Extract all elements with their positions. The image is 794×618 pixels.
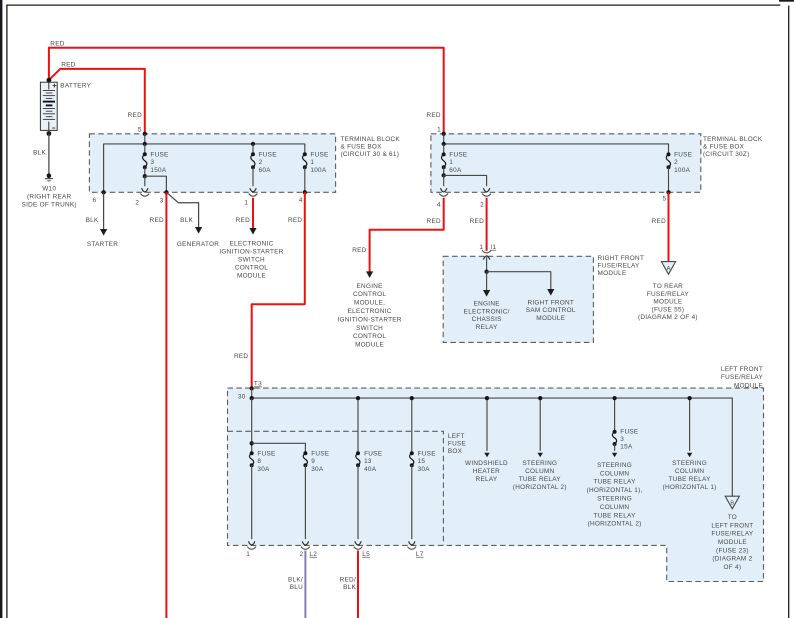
svg-text:OF 4): OF 4) <box>724 564 742 571</box>
svg-text:RED: RED <box>470 218 484 225</box>
svg-text:30: 30 <box>238 393 246 400</box>
module internal wire from entry <box>486 257 488 272</box>
fuse box 2 pin 1 entry dot <box>442 132 446 136</box>
svg-text:RED: RED <box>426 112 440 119</box>
svg-text:GENERATOR: GENERATOR <box>177 241 220 248</box>
svg-text:100A: 100A <box>310 167 327 174</box>
svg-text:COLUMN: COLUMN <box>675 468 704 475</box>
svg-text:5: 5 <box>138 127 142 134</box>
fuse 9 output wire with arrow to pin 2/L2 <box>304 465 306 539</box>
svg-text:FUSE: FUSE <box>449 152 467 159</box>
fuse F1 output junction <box>443 167 445 175</box>
svg-text:2: 2 <box>259 159 263 166</box>
fuse box 2 bus wire <box>444 144 669 155</box>
svg-text:BLU: BLU <box>290 584 303 591</box>
svg-text:4: 4 <box>437 201 441 208</box>
pin 4 wire with arrow (fuse box 2 bottom) <box>443 175 445 186</box>
svg-text:3: 3 <box>620 436 624 443</box>
svg-text:(HORIZONTAL 1),: (HORIZONTAL 1), <box>587 487 643 494</box>
terminal block & fuse box (circuit 30Z) dashed box <box>431 134 701 193</box>
svg-text:L2: L2 <box>309 551 317 558</box>
svg-text:RED: RED <box>652 218 666 225</box>
svg-text:BLK: BLK <box>86 217 99 224</box>
svg-text:MODULE: MODULE <box>355 342 384 349</box>
fuse F3 150A (fuse box 1) <box>144 144 146 154</box>
svg-text:1: 1 <box>437 127 441 134</box>
svg-text:BLK: BLK <box>343 584 356 591</box>
svg-text:RED: RED <box>352 247 366 254</box>
svg-text:1: 1 <box>310 159 314 166</box>
fuse F9 30A <box>303 453 307 465</box>
svg-text:STEERING: STEERING <box>597 462 632 469</box>
svg-text:FUSE: FUSE <box>311 451 329 458</box>
left fuse box inner dashed box <box>228 431 444 545</box>
svg-text:STARTER: STARTER <box>87 241 118 248</box>
svg-text:RED: RED <box>288 217 302 224</box>
svg-text:1: 1 <box>449 159 453 166</box>
fuse 13 feed wire <box>357 398 359 453</box>
svg-text:ELECTRONIC/: ELECTRONIC/ <box>464 308 510 315</box>
svg-text:COLUMN: COLUMN <box>600 470 629 477</box>
svg-text:FUSE: FUSE <box>259 152 277 159</box>
svg-text:SAM CONTROL: SAM CONTROL <box>526 307 576 314</box>
svg-text:L5: L5 <box>362 551 370 558</box>
windshield heater relay wire with arrow <box>486 398 488 451</box>
fuse box 1 pin 5 entry dot <box>143 132 147 136</box>
svg-text:MODULE: MODULE <box>237 273 266 280</box>
svg-text:A: A <box>667 266 671 272</box>
svg-text:FUSE: FUSE <box>364 451 382 458</box>
svg-text:(CIRCUIT 30 & 61): (CIRCUIT 30 & 61) <box>341 151 400 158</box>
svg-text:FUSE: FUSE <box>418 451 436 458</box>
svg-text:SIDE OF TRUNK): SIDE OF TRUNK) <box>22 202 77 209</box>
svg-text:13: 13 <box>364 458 372 465</box>
fuse F3 15A feed wire <box>614 398 616 432</box>
bus junction dot fuse 3 15A <box>612 396 616 400</box>
page frame: border top line <box>6 4 780 6</box>
page frame: border right line <box>788 6 790 618</box>
ground W10 <box>45 173 53 180</box>
svg-text:STEERING: STEERING <box>597 496 632 503</box>
fuse F1 output wire to pin 4 <box>304 167 306 192</box>
svg-text:RED: RED <box>234 353 248 360</box>
svg-text:RED: RED <box>50 41 64 48</box>
svg-text:& FUSE BOX: & FUSE BOX <box>341 143 383 150</box>
fuse F3 15A <box>612 432 616 444</box>
svg-text:ELECTRONIC: ELECTRONIC <box>230 241 274 248</box>
page frame: top-right edge bar <box>779 0 794 2</box>
fuse box 1 bus junction dot at entry <box>143 142 147 146</box>
svg-text:BLK/: BLK/ <box>288 577 303 584</box>
svg-text:1: 1 <box>246 551 250 558</box>
svg-text:LEFT: LEFT <box>448 433 465 440</box>
svg-text:TERMINAL BLOCK: TERMINAL BLOCK <box>341 136 401 143</box>
pin 1 connector cup (left front module) <box>247 547 256 550</box>
svg-text:5: 5 <box>662 196 666 203</box>
svg-text:L7: L7 <box>416 551 424 558</box>
fuse 8 output wire with arrow to pin 1 <box>251 465 253 539</box>
svg-text:(RIGHT REAR: (RIGHT REAR <box>27 194 72 201</box>
svg-text:FUSE: FUSE <box>620 429 638 436</box>
fuse 8 feed wire <box>251 398 253 453</box>
fuse F2 100A (fuse box 2) <box>666 154 670 167</box>
svg-text:6: 6 <box>92 197 96 204</box>
svg-text:BATTERY: BATTERY <box>60 82 91 89</box>
bus junction dot fuse 13 <box>356 396 360 400</box>
branch wire to fuse 9 <box>252 443 306 453</box>
battery negative junction dot <box>47 131 52 136</box>
steering column tube relay (horizontal 1) wire with arrow <box>689 398 691 451</box>
pin 4 RED wire to left front fuse/relay module <box>252 192 305 388</box>
pin 6 bottom edge dot <box>101 190 105 194</box>
svg-text:IGNITION-STARTER: IGNITION-STARTER <box>219 249 283 256</box>
svg-text:CONTROL: CONTROL <box>353 333 386 340</box>
terminal block & fuse box (circuit 30 & 61) dashed box <box>89 134 335 193</box>
svg-text:W10: W10 <box>42 185 56 192</box>
fuse F3 output wire and junction <box>144 167 146 176</box>
pin L7 connector cup <box>407 547 416 550</box>
svg-text:TO: TO <box>728 514 737 521</box>
svg-text:MODULE: MODULE <box>653 299 682 306</box>
battery positive junction dot <box>47 78 52 83</box>
svg-text:2: 2 <box>480 201 484 208</box>
pin 5 bottom edge dot (fuse box 2) <box>666 190 670 194</box>
bus junction dot steering column tube relay h2 <box>538 396 542 400</box>
svg-text:(CIRCUIT 30Z): (CIRCUIT 30Z) <box>703 151 749 158</box>
svg-text:RIGHT FRONT: RIGHT FRONT <box>527 299 574 306</box>
left front fuse/relay module dashed box (L-shape) <box>228 388 764 581</box>
pin 30 entry dot (left front module) <box>250 386 254 390</box>
fuse box 1 bus junction dot at fuse 2 <box>251 142 255 146</box>
svg-text:SWITCH: SWITCH <box>356 325 383 332</box>
svg-text:BOX: BOX <box>448 448 463 455</box>
branch wire to pin 2 <box>444 175 487 186</box>
svg-text:(HORIZONTAL 1): (HORIZONTAL 1) <box>663 484 717 491</box>
svg-text:RELAY: RELAY <box>476 476 498 483</box>
battery negative BLK wire <box>48 134 50 176</box>
pin 2 connector cup <box>140 194 149 197</box>
svg-text:2: 2 <box>300 551 304 558</box>
svg-text:I1: I1 <box>490 244 496 251</box>
svg-text:2: 2 <box>674 159 678 166</box>
svg-text:CONTROL: CONTROL <box>353 291 386 298</box>
svg-text:30A: 30A <box>418 466 431 473</box>
bus junction dot steering column tube relay h1 <box>687 396 691 400</box>
svg-text:3: 3 <box>150 159 154 166</box>
pin 2 RED wire to right front fuse/relay module <box>486 198 488 251</box>
fuse box 1 entry wire to bus <box>144 134 146 144</box>
battery B+ red wire to fuse box 1 pin 5 <box>49 69 145 134</box>
svg-text:TUBE RELAY: TUBE RELAY <box>594 479 637 486</box>
svg-text:FUSE/RELAY: FUSE/RELAY <box>647 291 690 298</box>
fuse 15 output wire with arrow to pin L7 <box>411 465 413 539</box>
svg-text:& FUSE BOX: & FUSE BOX <box>703 143 745 150</box>
svg-text:15A: 15A <box>620 444 633 451</box>
svg-text:MODULE: MODULE <box>734 382 763 389</box>
svg-text:TUBE RELAY: TUBE RELAY <box>519 476 562 483</box>
svg-text:BLK: BLK <box>33 150 46 157</box>
svg-text:RED: RED <box>236 217 250 224</box>
battery symbol <box>40 82 57 130</box>
entry wire to bus (left front module) <box>251 388 253 398</box>
fuse box 1 bus wire <box>104 144 305 192</box>
page frame: border left line <box>6 5 8 618</box>
svg-text:FUSE: FUSE <box>257 451 275 458</box>
svg-text:RIGHT FRONT: RIGHT FRONT <box>598 255 645 262</box>
svg-text:2: 2 <box>135 200 139 207</box>
svg-text:TO REAR: TO REAR <box>653 283 683 290</box>
svg-text:LEFT FRONT: LEFT FRONT <box>711 522 753 529</box>
fuse 15 feed wire <box>411 398 413 453</box>
pin 4 bottom edge dot <box>303 190 307 194</box>
fuse F1 100A (fuse box 1) <box>303 154 307 167</box>
off-page connector triangle A <box>661 262 675 275</box>
fuse F1 60A (fuse box 2) <box>443 144 445 155</box>
svg-text:RED: RED <box>61 62 75 69</box>
module entry arrow up <box>483 256 489 260</box>
bus junction dot windshield heater relay <box>485 396 489 400</box>
svg-text:(FUSE 23): (FUSE 23) <box>716 547 749 554</box>
svg-text:FUSE/RELAY: FUSE/RELAY <box>721 374 764 381</box>
fuse F15 30A <box>410 453 414 465</box>
svg-text:1: 1 <box>480 244 484 251</box>
svg-text:FUSE: FUSE <box>150 152 168 159</box>
engine electronic/chassis relay arrow <box>486 272 488 291</box>
svg-text:MODULE: MODULE <box>718 539 747 546</box>
pin 1 RED wire with arrow to electronic ignition-starter switch control module <box>252 198 254 229</box>
svg-text:FUSE: FUSE <box>674 152 692 159</box>
svg-text:MODULE: MODULE <box>536 315 565 322</box>
fuse F2 output wire to pin 5 <box>668 167 670 192</box>
svg-text:STEERING: STEERING <box>522 460 557 467</box>
svg-text:FUSE: FUSE <box>310 152 328 159</box>
svg-text:ENGINE: ENGINE <box>357 283 383 290</box>
generator BLK wire with arrow <box>166 192 198 227</box>
svg-text:BLK: BLK <box>180 217 193 224</box>
svg-text:FUSE/RELAY: FUSE/RELAY <box>711 531 754 538</box>
svg-text:STEERING: STEERING <box>672 460 707 467</box>
svg-text:RED: RED <box>128 112 142 119</box>
svg-text:IGNITION-STARTER: IGNITION-STARTER <box>337 316 401 323</box>
fuse 8 branch junction dot <box>250 441 254 445</box>
BLK/BLU wire to page bottom <box>304 551 306 618</box>
svg-text:COLUMN: COLUMN <box>525 468 554 475</box>
pin L5 connector cup <box>354 547 363 550</box>
pin 1 connector cup <box>249 194 258 197</box>
svg-text:COLUMN: COLUMN <box>600 504 629 511</box>
svg-text:MODULE: MODULE <box>598 270 627 277</box>
svg-text:1: 1 <box>244 200 248 207</box>
svg-text:ENGINE: ENGINE <box>474 301 500 308</box>
svg-text:3: 3 <box>160 198 164 205</box>
svg-text:HEATER: HEATER <box>473 468 500 475</box>
fuse box 2 entry wire to bus <box>443 134 445 144</box>
svg-text:CONTROL: CONTROL <box>235 265 268 272</box>
pin 2 connector cup <box>482 194 491 197</box>
pin 2 arrow (fuse box 2 bottom) <box>483 188 489 192</box>
pin 3 bottom edge dot <box>164 190 168 194</box>
svg-text:RELAY: RELAY <box>476 324 498 331</box>
svg-text:60A: 60A <box>259 167 272 174</box>
svg-text:(DIAGRAM 2 OF 4): (DIAGRAM 2 OF 4) <box>638 314 698 321</box>
fuse 13 output wire with arrow to pin L5 <box>357 465 359 539</box>
svg-text:LEFT FRONT: LEFT FRONT <box>721 366 763 373</box>
svg-text:FUSE: FUSE <box>448 440 466 447</box>
svg-text:TERMINAL BLOCK: TERMINAL BLOCK <box>703 136 763 143</box>
bus junction dot fuse 15 <box>410 396 414 400</box>
pin 1 wire with arrow (fuse box 1 bottom) <box>252 167 254 186</box>
svg-text:40A: 40A <box>364 466 377 473</box>
svg-text:15: 15 <box>418 458 426 465</box>
battery B+ red wire to fuse box 2 pin 1 (top run) <box>49 48 444 134</box>
svg-text:30A: 30A <box>311 466 324 473</box>
fuse F2 60A (fuse box 1) <box>252 144 254 154</box>
svg-text:B: B <box>730 500 734 506</box>
starter BLK wire with arrow <box>103 192 105 229</box>
svg-text:(HORIZONTAL 2): (HORIZONTAL 2) <box>588 521 642 528</box>
svg-text:T3: T3 <box>254 381 262 388</box>
steering column tube relay (horizontal 2) wire with arrow <box>539 398 541 451</box>
svg-text:CHASSIS: CHASSIS <box>472 316 502 323</box>
svg-text:TUBE RELAY: TUBE RELAY <box>594 512 637 519</box>
fuse box 2 bus junction dot <box>442 142 446 146</box>
branch wire to pin 3 <box>145 176 167 192</box>
module entry connector cup <box>482 250 491 253</box>
svg-text:30A: 30A <box>257 466 270 473</box>
off-page connector triangle B <box>725 496 739 509</box>
svg-text:WINDSHIELD: WINDSHIELD <box>465 460 508 467</box>
fuse 3 output wire with arrow <box>614 444 616 451</box>
svg-text:FUSE/RELAY: FUSE/RELAY <box>598 263 641 270</box>
svg-text:150A: 150A <box>150 167 167 174</box>
svg-text:SWITCH: SWITCH <box>238 257 265 264</box>
RED/BLK wire to page bottom <box>357 551 359 618</box>
right front fuse/relay module dashed box <box>443 256 593 342</box>
svg-text:TUBE RELAY: TUBE RELAY <box>669 476 712 483</box>
svg-text:RED: RED <box>150 217 164 224</box>
svg-text:60A: 60A <box>449 167 462 174</box>
svg-text:RED/: RED/ <box>340 577 356 584</box>
svg-text:(DIAGRAM 2: (DIAGRAM 2 <box>712 556 752 563</box>
pin 2 wire with arrow (fuse box 1 bottom) <box>144 176 146 186</box>
pin 4 RED wire with arrow to engine control module <box>370 198 444 272</box>
fuse F8 30A <box>250 453 254 465</box>
bus junction dot pin30 <box>250 396 254 400</box>
pin 4 connector cup <box>439 194 448 197</box>
right front sam control module wire and arrow <box>487 272 551 290</box>
svg-text:ELECTRONIC: ELECTRONIC <box>348 308 392 315</box>
svg-text:RED: RED <box>427 218 441 225</box>
svg-text:(HORIZONTAL 2): (HORIZONTAL 2) <box>513 484 567 491</box>
pin 3 long RED wire to page bottom <box>165 192 167 618</box>
left front module bus wire <box>252 398 733 496</box>
svg-text:(FUSE 55): (FUSE 55) <box>652 306 685 313</box>
page frame: left black bar <box>0 0 2 618</box>
pin 5 RED wire to triangle A <box>668 192 670 261</box>
svg-text:9: 9 <box>311 458 315 465</box>
pin 2 connector cup (left front module) <box>301 547 310 550</box>
svg-text:100A: 100A <box>674 167 691 174</box>
module internal junction dot <box>484 270 488 274</box>
fuse F13 40A <box>356 453 360 465</box>
svg-text:4: 4 <box>299 197 303 204</box>
svg-text:8: 8 <box>257 458 261 465</box>
svg-text:MODULE,: MODULE, <box>354 300 385 307</box>
